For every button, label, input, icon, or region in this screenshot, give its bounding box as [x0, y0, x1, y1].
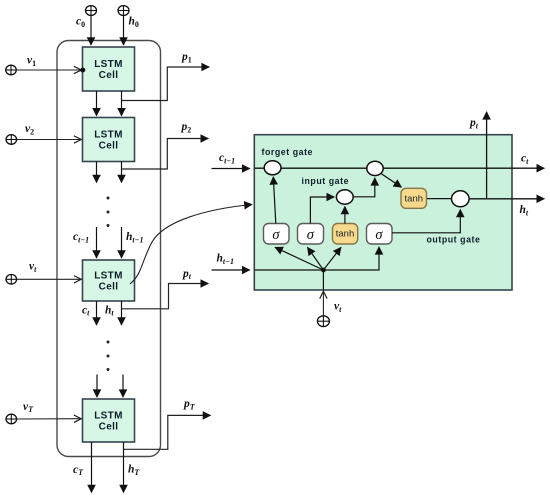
label vt detail — [334, 301, 342, 315]
label p2 — [181, 121, 192, 134]
fan arrow junction to sigma2 — [308, 247, 324, 270]
svg-text:σ: σ — [375, 227, 383, 243]
label vT — [23, 401, 34, 414]
node plus-circle vt detail — [317, 316, 329, 327]
label ht detail — [520, 204, 529, 218]
node output gate circle — [452, 191, 470, 207]
svg-text:input gate: input gate — [302, 176, 350, 186]
label output gate — [427, 235, 481, 245]
svg-text:LSTM: LSTM — [94, 59, 123, 70]
sigma box 3 — [367, 224, 393, 245]
wire h t-1 into detail box — [212, 269, 250, 271]
wire h(t-1) into cell t — [121, 227, 123, 258]
wire cell1 h output to cell2 — [121, 91, 123, 116]
svg-text:Cell: Cell — [99, 422, 119, 433]
wire cell t c output down — [96, 301, 98, 325]
node plus-circle vt — [6, 275, 17, 285]
wire plus circle to tanh2 diagonal — [380, 173, 402, 188]
svg-text:tanh: tanh — [336, 229, 355, 240]
tanh box lower — [333, 224, 358, 245]
svg-text:forget gate: forget gate — [262, 147, 314, 157]
wire pt vertical in detail — [486, 112, 488, 199]
junction dot on h t-1 line — [321, 268, 326, 273]
fan arrow junction to sigma1 — [275, 247, 323, 270]
label cT — [73, 464, 84, 477]
label h0 — [129, 16, 139, 30]
label h t-1 — [126, 231, 143, 244]
wire p2 elbow — [122, 139, 209, 170]
label input gate — [302, 176, 350, 186]
label pT — [183, 398, 196, 411]
LSTM cell t — [83, 260, 135, 301]
label forget gate — [262, 147, 314, 157]
sigma box 1 — [264, 224, 290, 245]
label p1 — [181, 51, 192, 64]
node plus-circle v2 — [6, 135, 17, 145]
tanh box middle — [401, 188, 427, 208]
label hT — [128, 464, 140, 477]
junction dot on cell1 input — [80, 68, 85, 73]
wire p1 elbow — [122, 67, 210, 101]
wire cell2 c output down — [96, 162, 98, 183]
svg-text:Cell: Cell — [99, 70, 119, 81]
svg-text:Cell: Cell — [99, 141, 119, 152]
wire sigma3 to output circle elbow — [392, 210, 460, 233]
label c t-1 detail input — [219, 152, 235, 166]
svg-text:LSTM: LSTM — [94, 271, 123, 282]
wire c line through detail to ct — [254, 167, 544, 169]
wire into cell T left — [96, 375, 98, 398]
wire v1 to cell1 — [16, 69, 80, 71]
label vt — [29, 261, 37, 274]
node input gate circle — [336, 190, 353, 204]
label c t-1 — [73, 231, 89, 244]
node plus-circle v1 — [6, 65, 17, 75]
label v2 — [25, 123, 34, 136]
ellipsis dots upper — [107, 197, 110, 228]
wire vT to cell T — [17, 418, 81, 420]
wire vt to cell t — [17, 278, 81, 280]
wire into cell T right — [122, 375, 124, 398]
svg-text:tanh: tanh — [405, 194, 424, 205]
svg-text:Cell: Cell — [99, 282, 119, 293]
svg-text:output gate: output gate — [427, 235, 481, 245]
fan arrow junction to tanh1 — [323, 247, 341, 270]
wire h t-1 inside to sigma3 elbow — [254, 247, 379, 270]
wire c t-1 into detail box — [212, 168, 250, 170]
label ht — [105, 304, 114, 317]
wire pT elbow — [124, 415, 211, 449]
node plus-circle vT — [6, 414, 17, 424]
node plus-circle h0 — [118, 6, 129, 16]
label pt — [182, 268, 192, 281]
wire tanh1 to input circle — [344, 207, 346, 224]
label v1 — [27, 55, 36, 68]
wire v2 to cell2 — [17, 139, 81, 141]
ellipsis dots lower — [107, 341, 110, 372]
sigma box 2 — [298, 224, 324, 245]
wire cell2 h output down — [121, 162, 123, 183]
wire h0 to cell1 — [123, 15, 125, 45]
node plus circle on c line — [367, 161, 383, 175]
wire input circle to plus circle elbow — [353, 178, 375, 197]
svg-text:LSTM: LSTM — [94, 411, 123, 422]
wire c(t-1) into cell t — [96, 227, 98, 258]
svg-text:σ: σ — [272, 227, 280, 243]
curved arrow from cell t to detail box — [130, 205, 252, 285]
svg-text:σ: σ — [307, 227, 315, 243]
LSTM cell 1 — [83, 47, 135, 91]
LSTM cell 2 — [83, 118, 135, 162]
detail cell background box — [254, 135, 512, 290]
wire cT output down — [91, 442, 93, 493]
wire cell1 c output to cell2 — [96, 91, 98, 116]
wire cell t h output down — [121, 301, 123, 325]
wire tanh2 to output circle — [427, 198, 453, 200]
label c0 — [76, 15, 85, 29]
wire sigma2 to input circle elbow — [310, 197, 334, 224]
wire hT output down — [123, 442, 125, 493]
wire h line output circle to ht — [460, 198, 544, 200]
LSTM cell T — [83, 399, 135, 442]
outer rounded container of LSTM chain — [57, 41, 161, 457]
svg-text:LSTM: LSTM — [94, 130, 123, 141]
node plus-circle c0 — [86, 6, 97, 16]
wire vt into detail box — [322, 292, 324, 315]
wire sigma1 to forget circle — [273, 177, 276, 224]
wire c0 to cell1 — [90, 15, 92, 45]
label ct detail — [521, 153, 529, 167]
wire pt elbow — [122, 284, 209, 309]
label pt detail — [469, 117, 479, 131]
wire vt inside to junction — [322, 270, 324, 290]
node forget gate circle — [264, 161, 281, 175]
label ct — [82, 304, 90, 317]
label h t-1 detail input — [217, 252, 234, 266]
